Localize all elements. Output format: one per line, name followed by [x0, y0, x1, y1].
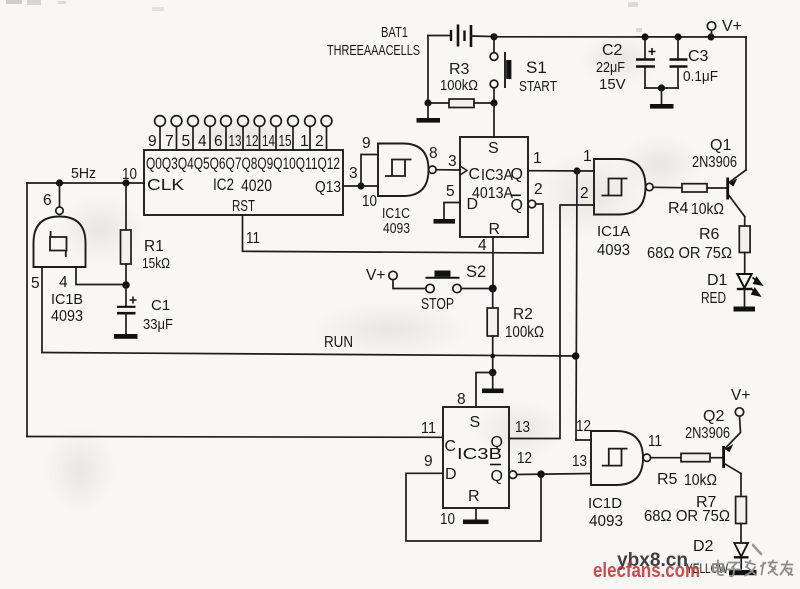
svg-text:RED: RED — [701, 290, 726, 307]
svg-text:R: R — [489, 221, 501, 238]
svg-text:IC1B: IC1B — [51, 291, 83, 308]
wire IC3A S pin to S1 node — [493, 103, 495, 137]
wire IC3A R pin 4 down to S2 node — [478, 237, 493, 289]
label IC3B pin 11 — [421, 420, 436, 437]
svg-text:3: 3 — [349, 165, 358, 182]
wire RUN line — [42, 353, 576, 357]
wire IC2 Q13 pin 3 to IC1C inputs — [343, 165, 361, 186]
svg-text:5Hz: 5Hz — [71, 165, 96, 182]
ground on IC3A D pin 5 — [434, 183, 461, 224]
node Qbar feedback junction — [537, 470, 545, 478]
svg-text:4093: 4093 — [597, 242, 630, 259]
node IC1A pin1 junction — [573, 167, 580, 174]
node cap ground junction — [658, 84, 665, 91]
svg-text:D2: D2 — [693, 538, 714, 555]
label S1 START — [519, 58, 557, 95]
wire IC1B pin4 to R1/C1 node — [76, 267, 123, 285]
IC2 output pin terminals — [155, 116, 332, 150]
svg-text:R1: R1 — [144, 238, 164, 255]
svg-text:STOP: STOP — [421, 296, 454, 313]
transistor Q2 2N3906 — [685, 408, 741, 474]
svg-text:6: 6 — [214, 133, 223, 150]
label IC3B pin 9 — [424, 453, 433, 470]
svg-text:C2: C2 — [602, 42, 623, 59]
svg-text:D1: D1 — [707, 272, 728, 289]
svg-text:1: 1 — [300, 133, 309, 150]
svg-text:D: D — [445, 466, 457, 483]
svg-text:7: 7 — [165, 133, 174, 150]
capacitor C3 — [670, 37, 719, 88]
resistor R7 — [644, 474, 746, 543]
svg-text:4093: 4093 — [383, 220, 410, 237]
node R3 left junction — [424, 99, 431, 106]
node IC3B S junction — [489, 369, 497, 377]
wire IC1D output pin 11 to R5 — [648, 433, 681, 458]
svg-text:11: 11 — [648, 433, 662, 450]
node C3 top — [674, 33, 681, 40]
svg-text:68Ω OR 75Ω: 68Ω OR 75Ω — [647, 245, 732, 262]
flip-flop IC3B body — [443, 407, 509, 508]
svg-text:elecfans.com: elecfans.com — [593, 560, 700, 582]
node RUN right end junction — [572, 352, 580, 360]
ground below C1 — [114, 334, 138, 339]
svg-text:5: 5 — [182, 133, 191, 150]
scan mottling — [45, 35, 705, 515]
watermark chinese characters (vector strokes) — [713, 561, 793, 577]
LED D1 — [701, 272, 762, 307]
svg-text:C3: C3 — [688, 48, 709, 65]
label pin 10 CLK — [122, 166, 137, 183]
IC2 4020 body — [144, 150, 343, 215]
svg-text:6: 6 — [43, 192, 52, 209]
battery BAT1 — [428, 25, 491, 48]
ground at IC3B S node — [482, 373, 504, 394]
svg-text:IC3A: IC3A — [481, 167, 514, 184]
svg-text:4020: 4020 — [241, 177, 272, 195]
svg-text:68Ω OR 75Ω: 68Ω OR 75Ω — [644, 508, 730, 525]
capacitor C1 — [117, 285, 173, 334]
svg-text:Q: Q — [491, 468, 503, 485]
svg-text:Q: Q — [511, 166, 523, 183]
label 5Hz — [71, 165, 96, 182]
svg-text:4093: 4093 — [589, 513, 623, 530]
svg-text:Q2: Q2 — [703, 408, 724, 425]
nand gate IC1B (points up) — [31, 183, 86, 325]
wire IC3A Q pin 1 to IC1A input — [528, 148, 594, 171]
svg-text:12: 12 — [576, 418, 591, 435]
svg-text:R: R — [468, 488, 480, 505]
resistor R4 — [668, 184, 726, 218]
node battery + junction — [490, 33, 497, 40]
svg-text:15: 15 — [279, 133, 292, 150]
svg-text:Q: Q — [511, 197, 523, 214]
svg-text:RUN: RUN — [324, 334, 353, 351]
wire IC2 RST pin 11 — [243, 215, 544, 253]
svg-text:Q1: Q1 — [710, 137, 731, 154]
svg-text:1: 1 — [583, 148, 592, 165]
svg-text:2: 2 — [315, 133, 324, 150]
svg-text:15kΩ: 15kΩ — [142, 255, 170, 272]
svg-text:C: C — [445, 438, 457, 455]
svg-text:4013A: 4013A — [472, 185, 513, 202]
svg-text:3: 3 — [448, 153, 457, 170]
nand gate IC1A — [594, 159, 653, 259]
svg-text:13: 13 — [572, 453, 587, 470]
terminal V+ top — [707, 18, 742, 37]
svg-text:1: 1 — [533, 150, 542, 167]
svg-text:22μF: 22μF — [596, 59, 625, 76]
ground below R3 — [417, 103, 441, 123]
IC2 pin numbers 9 7 5 4 6 13 12 14 15 1 2 — [148, 133, 324, 150]
svg-text:14: 14 — [262, 133, 275, 150]
svg-text:IC1A: IC1A — [597, 223, 630, 240]
svg-text:THREEAAACELLS: THREEAAACELLS — [327, 42, 420, 59]
ground below D1 — [734, 307, 756, 312]
wire IC1D pin 12 input — [576, 418, 591, 440]
svg-text:9: 9 — [148, 133, 157, 150]
svg-text:11: 11 — [421, 420, 436, 437]
svg-text:2: 2 — [534, 181, 543, 198]
svg-text:10: 10 — [362, 193, 377, 210]
svg-text:C: C — [469, 166, 481, 183]
svg-text:R4: R4 — [668, 200, 689, 217]
resistor R3 — [428, 61, 494, 108]
wire V+ rail right drop to Q1 emitter — [745, 37, 747, 170]
svg-text:33μF: 33μF — [143, 316, 173, 333]
nand gate IC1D — [588, 431, 651, 530]
svg-text:5: 5 — [446, 183, 455, 200]
nand gate IC1C — [361, 135, 457, 237]
svg-text:CLK: CLK — [147, 177, 184, 194]
svg-text:4: 4 — [478, 237, 487, 254]
svg-text:5: 5 — [31, 275, 40, 292]
transistor Q1 2N3906 — [692, 137, 746, 217]
svg-text:10kΩ: 10kΩ — [691, 201, 724, 218]
switch S1 — [490, 40, 511, 99]
svg-text:4: 4 — [198, 133, 207, 150]
resistor R1 — [121, 183, 171, 285]
svg-text:9: 9 — [424, 453, 433, 470]
wire 5Hz line into CLK — [27, 182, 144, 184]
svg-text:RST: RST — [232, 198, 255, 215]
svg-text:9: 9 — [362, 135, 371, 152]
svg-text:12: 12 — [517, 450, 532, 467]
svg-text:4093: 4093 — [51, 308, 83, 325]
svg-text:S: S — [488, 140, 499, 157]
node S1 bottom junction — [490, 99, 497, 106]
svg-text:START: START — [519, 78, 557, 95]
wire IC3B Q pin 13 — [515, 419, 530, 436]
node C2 top — [641, 33, 648, 40]
resistor R2 — [487, 289, 544, 373]
svg-text:4: 4 — [59, 274, 68, 291]
wire feedback loop Qbar to D — [406, 473, 541, 541]
capacitor C2 — [596, 37, 656, 93]
svg-text:R6: R6 — [699, 226, 720, 243]
scan noise top-left — [6, 0, 642, 32]
svg-text:100kΩ: 100kΩ — [505, 324, 544, 341]
svg-text:100kΩ: 100kΩ — [440, 77, 478, 94]
node S2 R2 junction — [489, 285, 497, 293]
svg-text:2N3906: 2N3906 — [692, 154, 737, 171]
node IC1C input junction — [357, 182, 364, 189]
wire IC1B pin5 down — [41, 267, 43, 353]
svg-text:IC1D: IC1D — [588, 495, 622, 512]
wire C2 C3 bottom rail — [645, 87, 678, 89]
svg-text:12: 12 — [246, 133, 259, 150]
watermark ybx8.cn — [617, 550, 688, 571]
terminal V+ for Q2 — [731, 387, 750, 416]
ground below D2 — [729, 570, 757, 575]
svg-text:V+: V+ — [366, 267, 385, 284]
svg-text:BAT1: BAT1 — [381, 24, 408, 41]
flip-flop IC3A 4013A body — [460, 137, 528, 238]
svg-text:10kΩ: 10kΩ — [684, 472, 717, 489]
svg-text:D: D — [467, 196, 479, 213]
svg-text:C1: C1 — [151, 297, 170, 314]
wire IC1A pin 2 input from IC3B Q — [509, 205, 594, 439]
IC3B Qbar pin 12 bubble — [509, 450, 591, 479]
node 5Hz gate output junction — [56, 179, 63, 186]
svg-text:V+: V+ — [731, 387, 750, 404]
LED D2 — [686, 538, 749, 576]
svg-text:S2: S2 — [466, 263, 486, 281]
switch S2 — [393, 263, 489, 313]
node R1 top junction — [122, 179, 129, 186]
resistor R5 — [657, 453, 722, 489]
ground below C2 C3 — [650, 88, 674, 109]
node V+ stem — [707, 33, 714, 40]
battery BAT1 label — [327, 24, 420, 59]
svg-text:R2: R2 — [513, 306, 533, 323]
node R1 C1 pin4 junction — [122, 281, 130, 289]
wire left vertical to IC3B C line — [26, 183, 28, 437]
terminal V+ for S2 — [366, 267, 397, 284]
wire C input line to IC3B — [27, 436, 443, 439]
wire top rail to V+ — [494, 36, 746, 38]
svg-text:Q: Q — [491, 434, 503, 451]
svg-text:R3: R3 — [449, 61, 470, 78]
svg-text:S: S — [470, 414, 481, 431]
svg-text:V+: V+ — [722, 18, 742, 35]
wire IC1A output to R4 — [653, 186, 682, 188]
wire S node to IC3B pin 8 — [457, 373, 493, 409]
svg-text:8: 8 — [457, 391, 466, 408]
svg-text:0.1μF: 0.1μF — [683, 68, 718, 85]
svg-text:8: 8 — [429, 145, 438, 162]
svg-text:2N3906: 2N3906 — [685, 425, 730, 442]
svg-text:15V: 15V — [599, 76, 626, 93]
svg-text:S1: S1 — [526, 58, 547, 77]
svg-text:13: 13 — [229, 133, 242, 150]
svg-text:Q0Q3Q4Q5Q6Q7Q8Q9Q10Q11Q12: Q0Q3Q4Q5Q6Q7Q8Q9Q10Q11Q12 — [146, 154, 340, 173]
svg-text:13: 13 — [515, 419, 530, 436]
svg-text:Q13: Q13 — [315, 179, 341, 196]
svg-text:10: 10 — [440, 511, 455, 528]
watermark chinese brush mark near D2 — [753, 545, 761, 554]
ground on IC3B R pin 10 — [440, 508, 489, 528]
node R2 RUN crossing — [490, 354, 495, 359]
svg-text:IC2: IC2 — [213, 176, 234, 194]
label RUN — [324, 334, 353, 351]
resistor R6 — [647, 217, 750, 274]
label IC1D pin 13 — [572, 453, 587, 470]
wire junction down to RUN and IC1D pin 12 — [576, 171, 577, 440]
svg-text:R5: R5 — [657, 471, 678, 488]
IC3A Qbar pin 2 bubble and wire to RST line — [528, 181, 589, 253]
svg-text:2: 2 — [580, 185, 589, 202]
wire battery negative drop — [427, 36, 429, 104]
svg-text:11: 11 — [246, 230, 260, 247]
watermark elecfans.com — [593, 560, 700, 582]
wire IC1C output to IC3A C — [436, 169, 460, 171]
